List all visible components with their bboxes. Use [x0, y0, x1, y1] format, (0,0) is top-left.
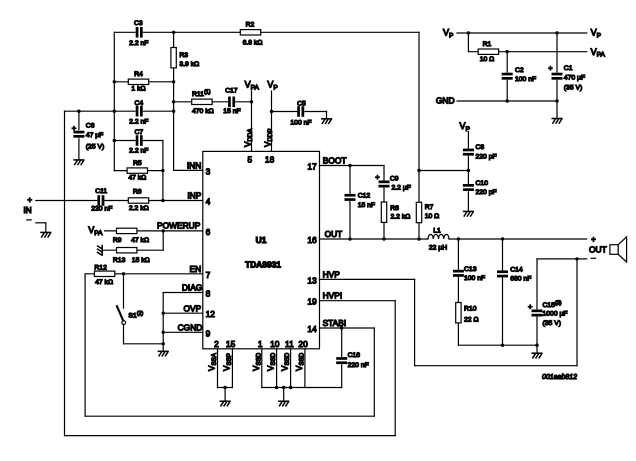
- junction C3/R2/R3: [172, 31, 175, 34]
- svg-text:R9: R9: [113, 237, 122, 244]
- resistor R2: [240, 30, 260, 35]
- svg-text:IN: IN: [23, 205, 31, 215]
- wire BOOT pin 17: [320, 165, 385, 167]
- capacitor C17: [228, 96, 235, 107]
- svg-text:15 kΩ: 15 kΩ: [132, 257, 150, 264]
- svg-text:GND: GND: [436, 96, 455, 106]
- wire VSSD pin 20 lead: [304, 349, 306, 388]
- svg-text:470 kΩ: 470 kΩ: [192, 108, 214, 115]
- svg-text:1: 1: [258, 339, 263, 349]
- svg-text:C7: C7: [134, 129, 143, 136]
- junction R1 tap: [467, 31, 470, 34]
- svg-text:R7: R7: [425, 204, 434, 211]
- junction POWERUP/R13: [162, 229, 165, 232]
- junction VSSA/VSSP ground: [223, 386, 226, 389]
- wire HVP bottom run: [415, 365, 577, 367]
- capacitor C10: [463, 184, 474, 191]
- junction R8/OUT: [382, 237, 385, 240]
- wire C9 top lead: [383, 166, 385, 182]
- ground below C6: [74, 160, 84, 165]
- svg-text:POWERUP: POWERUP: [157, 220, 201, 230]
- wire VSSD pin 10 lead: [276, 349, 278, 388]
- svg-text:2.2 kΩ: 2.2 kΩ: [391, 214, 411, 221]
- svg-text:DIAG: DIAG: [182, 283, 202, 293]
- svg-text:22 µH: 22 µH: [429, 244, 447, 251]
- capacitor C13: [453, 270, 464, 277]
- svg-text:C10: C10: [476, 180, 489, 187]
- svg-text:BOOT: BOOT: [323, 155, 347, 165]
- wire C6 bottom lead: [78, 139, 80, 160]
- wire VP rail: [457, 32, 587, 34]
- wire VDDP pin 18 lead: [271, 91, 273, 151]
- wire STABI left riser to R12: [84, 274, 86, 416]
- wire C15 bottom lead: [536, 315, 538, 345]
- svg-text:4: 4: [206, 197, 211, 207]
- junction R4 left: [113, 80, 116, 83]
- wire R13 to POWERUP: [162, 231, 164, 250]
- junction C2 top: [506, 50, 509, 53]
- svg-text:U1: U1: [256, 235, 267, 245]
- svg-text:19: 19: [307, 297, 317, 307]
- svg-text:47 kΩ: 47 kΩ: [131, 237, 149, 244]
- junction C14 bottom: [501, 344, 504, 347]
- wire R2 to R7 vertical: [418, 32, 420, 239]
- wire VSSA pin 2 lead: [217, 349, 219, 388]
- wire C16 to VSSD bus: [262, 387, 342, 389]
- wire INN bus vertical: [173, 32, 175, 170]
- wire C16 bottom lead: [341, 363, 343, 388]
- svg-text:16: 16: [307, 235, 317, 245]
- wire C12 bottom lead: [349, 200, 351, 239]
- svg-text:TDA8931: TDA8931: [245, 260, 281, 270]
- svg-text:13: 13: [307, 275, 317, 285]
- ground IN-: [41, 232, 51, 237]
- svg-text:+: +: [27, 196, 32, 205]
- wire OUT- horizontal: [537, 258, 587, 260]
- junction C6 tap: [77, 110, 80, 113]
- junction R7/OUT: [417, 237, 420, 240]
- resistor R12: [94, 271, 114, 276]
- resistor R5: [127, 168, 147, 173]
- junction VSSD 10: [275, 386, 278, 389]
- svg-text:+: +: [591, 235, 596, 244]
- svg-text:8: 8: [206, 289, 211, 299]
- svg-text:2.2 nF: 2.2 nF: [129, 148, 148, 155]
- svg-text:14: 14: [307, 324, 317, 334]
- wire R7 to C8/C10: [419, 170, 468, 172]
- svg-text:HVP: HVP: [323, 269, 341, 279]
- svg-text:C13: C13: [464, 266, 477, 273]
- junction C13/OUT: [457, 237, 460, 240]
- wire C1 bottom lead: [556, 79, 558, 119]
- wire R4: [114, 81, 173, 83]
- svg-text:7: 7: [206, 270, 211, 280]
- wire STABI pin 14: [320, 327, 375, 329]
- wire HVPI bottom run: [65, 435, 396, 437]
- wire R13: [103, 249, 163, 251]
- wire VPA rail: [468, 51, 586, 53]
- svg-text:R10: R10: [464, 306, 477, 313]
- resistor R3: [171, 48, 176, 68]
- svg-text:220 nF: 220 nF: [91, 206, 112, 213]
- svg-text:INP: INP: [187, 191, 201, 201]
- junction C1 top: [555, 31, 558, 34]
- wire C4 net: [65, 110, 174, 112]
- ground VSSD: [279, 401, 289, 406]
- svg-text:EN: EN: [190, 264, 202, 274]
- junction OUT-: [575, 257, 578, 260]
- svg-text:R5: R5: [133, 160, 142, 167]
- capacitor C8: [463, 149, 474, 156]
- junction INP net: [161, 199, 164, 202]
- wire C13/R10 bottom: [457, 276, 459, 345]
- capacitor C5: [297, 106, 304, 117]
- wire VSSD pin 11 lead: [290, 349, 292, 388]
- svg-text:17: 17: [307, 162, 317, 172]
- svg-text:R4: R4: [134, 71, 143, 78]
- resistor R1: [478, 49, 498, 54]
- capacitor C1 electrolytic: [551, 73, 562, 80]
- svg-text:R2: R2: [246, 22, 255, 29]
- wire VSSD pin 1 lead: [261, 349, 263, 388]
- resistor R11: [192, 99, 212, 104]
- svg-text:20: 20: [298, 339, 308, 349]
- svg-text:220 nF: 220 nF: [348, 362, 369, 369]
- wire C7: [114, 140, 163, 142]
- svg-text:(35 V): (35 V): [543, 320, 562, 327]
- junction C4 left: [113, 110, 116, 113]
- wire DIAG pin 8: [163, 292, 203, 294]
- wire C15 top lead: [536, 259, 538, 311]
- wire VDDA pin 5 lead: [251, 91, 253, 151]
- capacitor C12: [344, 194, 355, 201]
- svg-text:R6: R6: [133, 188, 142, 195]
- svg-text:2.2 kΩ: 2.2 kΩ: [129, 205, 149, 212]
- wire C5: [272, 111, 327, 113]
- svg-text:+: +: [548, 64, 553, 73]
- junction VSSD ground tap: [282, 386, 285, 389]
- wire C2 top lead: [506, 52, 508, 74]
- svg-text:6: 6: [206, 227, 211, 237]
- switch S1: [123, 274, 125, 308]
- wire HVP pin 13: [320, 278, 415, 280]
- ground C15: [532, 353, 542, 358]
- resistor R4: [128, 79, 148, 84]
- svg-text:INN: INN: [187, 161, 201, 171]
- svg-text:470 µF: 470 µF: [564, 74, 585, 81]
- svg-text:10: 10: [270, 339, 280, 349]
- svg-text:CGND: CGND: [178, 322, 203, 332]
- svg-text:220 pF: 220 pF: [476, 189, 497, 196]
- svg-text:+: +: [72, 123, 77, 132]
- wire OUT pin 16: [320, 238, 429, 240]
- svg-text:C1: C1: [564, 65, 573, 72]
- svg-text:+: +: [375, 172, 380, 181]
- junction C12/BOOT: [348, 164, 351, 167]
- wire C2 bottom lead: [506, 79, 508, 102]
- wire R11/C17 to VDDA: [174, 101, 252, 103]
- capacitor C11: [97, 195, 104, 206]
- svg-text:15: 15: [226, 339, 236, 349]
- junction C2 bottom: [506, 99, 509, 102]
- svg-text:6.8 kΩ: 6.8 kΩ: [243, 40, 263, 47]
- wire OUT to speaker +: [449, 238, 587, 240]
- svg-text:R8: R8: [390, 205, 399, 212]
- junction EN/S1: [122, 272, 125, 275]
- junction R7 top: [417, 169, 420, 172]
- resistor R8: [381, 202, 386, 222]
- svg-text:3.9 kΩ: 3.9 kΩ: [179, 61, 199, 68]
- svg-text:R13: R13: [113, 257, 126, 264]
- junction R4 right: [172, 80, 175, 83]
- svg-text:C16: C16: [348, 352, 361, 359]
- label OUT -: [591, 257, 595, 259]
- svg-text:(25 V): (25 V): [86, 143, 105, 150]
- svg-text:001aab812: 001aab812: [542, 374, 577, 381]
- junction R5/C7 right: [161, 169, 164, 172]
- svg-text:C17: C17: [225, 87, 238, 94]
- svg-text:2: 2: [214, 339, 219, 349]
- resistor R9: [117, 228, 137, 233]
- svg-text:C12: C12: [358, 192, 371, 199]
- svg-text:220 pF: 220 pF: [476, 153, 497, 160]
- capacitor C14: [497, 270, 508, 277]
- resistor R13: [117, 248, 137, 253]
- junction VSSD 11: [289, 386, 292, 389]
- wire GND rail: [457, 100, 557, 102]
- wire VSSP pin 15 lead: [231, 349, 233, 388]
- svg-text:C9: C9: [390, 175, 399, 182]
- svg-text:OUT: OUT: [589, 245, 607, 255]
- wire STABI bottom run: [85, 415, 374, 417]
- junction C12/OUT: [348, 237, 351, 240]
- capacitor C6 electrolytic: [73, 131, 84, 138]
- svg-text:11: 11: [285, 339, 294, 349]
- junction C8/C10: [467, 169, 470, 172]
- capacitor C2: [502, 73, 513, 80]
- wire C10 bottom lead: [467, 191, 469, 212]
- ground VSSA/VSSP: [220, 401, 230, 406]
- wire C12 top lead: [349, 166, 351, 196]
- junction C7 left: [113, 139, 116, 142]
- svg-text:C3: C3: [134, 20, 143, 27]
- svg-text:R1: R1: [483, 41, 492, 48]
- wire C16 top lead: [341, 328, 343, 358]
- junction C15 bottom: [535, 344, 538, 347]
- resistor R10: [456, 303, 461, 323]
- wire HVPI pin 19: [320, 300, 396, 302]
- svg-text:+: +: [528, 302, 533, 311]
- junction C5/VDDP: [270, 110, 273, 113]
- wire INN pin 3: [174, 169, 203, 171]
- capacitor C16: [336, 357, 347, 364]
- capacitor C3: [136, 27, 143, 38]
- wire DIAG/OVP/CGND vertical: [162, 293, 164, 344]
- ground rotated at R13: [98, 245, 103, 255]
- ground C5: [322, 119, 332, 124]
- wire C9/R8 bottom: [383, 186, 385, 239]
- svg-text:3: 3: [206, 166, 211, 176]
- wire S1 to CGND ground: [124, 343, 164, 345]
- wire OVP pin 12: [163, 312, 203, 314]
- svg-text:1 kΩ: 1 kΩ: [131, 86, 145, 93]
- junction OVP: [162, 312, 165, 315]
- svg-text:R12: R12: [94, 265, 107, 272]
- svg-text:10 Ω: 10 Ω: [425, 213, 440, 220]
- svg-text:9: 9: [206, 328, 211, 338]
- wire C10 top lead: [467, 171, 469, 185]
- svg-text:1000 µF: 1000 µF: [543, 311, 568, 318]
- junction C4 right: [172, 110, 175, 113]
- wire VSSA/VSSP bus: [218, 387, 233, 389]
- wire IN+ to INP: [36, 200, 203, 202]
- wire C8 bottom lead: [467, 156, 469, 171]
- svg-text:18: 18: [265, 154, 275, 164]
- ground C1: [552, 119, 562, 124]
- wire C1 top lead: [556, 33, 558, 74]
- junction C16/STABI: [340, 326, 343, 329]
- op-amp U1 TDA8931 IC body: [203, 151, 320, 348]
- wire HVPI left riser: [64, 111, 66, 435]
- svg-text:STABI: STABI: [323, 318, 347, 328]
- junction C1 bottom: [555, 99, 558, 102]
- svg-text:C14: C14: [510, 266, 523, 273]
- svg-text:R3: R3: [179, 52, 188, 59]
- wire C14 bottom lead: [502, 277, 504, 346]
- wire R5: [114, 170, 163, 172]
- svg-text:680 nF: 680 nF: [510, 275, 531, 282]
- resistor R6: [128, 198, 148, 203]
- ground C10: [464, 211, 474, 216]
- wire C7/R5 to INP vertical: [162, 141, 164, 201]
- svg-text:100 nF: 100 nF: [290, 120, 311, 127]
- speaker LS: [610, 245, 618, 255]
- capacitor C4: [136, 106, 143, 117]
- svg-text:47 kΩ: 47 kΩ: [128, 174, 146, 181]
- capacitor C9 electrolytic: [378, 180, 389, 187]
- svg-text:15 nF: 15 nF: [223, 108, 240, 115]
- svg-text:10 Ω: 10 Ω: [480, 56, 495, 63]
- ground CGND/S1: [158, 351, 168, 356]
- wire POWERUP pin 6: [105, 230, 203, 232]
- wire EN pin 7: [85, 273, 203, 275]
- junction CGND: [162, 331, 165, 334]
- wire C13 top lead: [457, 239, 459, 271]
- svg-text:47 kΩ: 47 kΩ: [95, 279, 113, 286]
- svg-text:100 nF: 100 nF: [464, 275, 485, 282]
- svg-text:47 µF: 47 µF: [86, 132, 104, 139]
- svg-text:C2: C2: [515, 67, 524, 74]
- svg-text:OUT: OUT: [325, 229, 343, 239]
- wire C6 top lead: [78, 111, 80, 129]
- capacitor C7: [136, 135, 143, 146]
- svg-text:HVPI: HVPI: [323, 291, 343, 301]
- wire C14 top lead: [502, 239, 504, 271]
- wire IN- stub: [36, 222, 46, 224]
- svg-text:C8: C8: [476, 144, 485, 151]
- svg-text:C4: C4: [134, 100, 143, 107]
- inductor L1: [428, 234, 449, 239]
- junction S1 ground: [162, 342, 165, 345]
- junction R11 left: [172, 100, 175, 103]
- svg-text:C5: C5: [297, 100, 306, 107]
- svg-text:2.2 nF: 2.2 nF: [129, 40, 148, 47]
- junction C14/OUT: [501, 237, 504, 240]
- svg-text:5: 5: [247, 154, 252, 164]
- wire C3/R2 top net: [114, 31, 419, 33]
- capacitor C15 electrolytic: [531, 309, 542, 316]
- svg-text:(35 V): (35 V): [564, 84, 583, 91]
- svg-text:C6: C6: [86, 123, 95, 130]
- svg-text:100 nF: 100 nF: [515, 76, 536, 83]
- wire CGND pin 9: [163, 331, 203, 333]
- svg-text:L1: L1: [433, 227, 441, 234]
- label IN -: [27, 219, 31, 221]
- svg-text:12: 12: [206, 309, 216, 319]
- junction C17/VDDA: [250, 100, 253, 103]
- resistor R7: [416, 202, 421, 222]
- wire zobel bottom: [458, 344, 537, 346]
- svg-text:22 Ω: 22 Ω: [464, 316, 479, 323]
- svg-text:2.2 µF: 2.2 µF: [392, 185, 411, 192]
- svg-text:OVP: OVP: [184, 303, 202, 313]
- wire left input bus: [113, 32, 115, 170]
- wire OUT- vertical: [576, 259, 578, 366]
- svg-text:15 nF: 15 nF: [358, 202, 375, 209]
- svg-text:2.2 nF: 2.2 nF: [129, 118, 148, 125]
- wire C8 top lead: [467, 132, 469, 149]
- svg-text:C11: C11: [95, 188, 107, 195]
